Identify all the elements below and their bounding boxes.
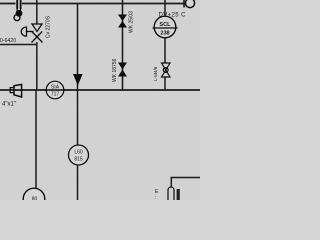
svg-text:WK 18756: WK 18756 (112, 58, 118, 82)
wire: top horizontal rail (0, 3, 184, 5)
diode V2 (double filled triangles) (118, 15, 127, 28)
node dot below C1 (16, 10, 23, 17)
tube 80 (bottom, clipped) (23, 188, 45, 210)
svg-text:L60: L60 (74, 150, 83, 156)
svg-text:80: 80 (32, 197, 38, 201)
terminal at top right (183, 0, 185, 8)
svg-text:SCL: SCL (159, 22, 171, 28)
wire: vertical line x=122.5 from top edge to bus (122, 0, 124, 90)
arrow (signal direction) on x=77 line (73, 74, 83, 86)
wire: branch to left edge at y=44.5 (0, 44, 37, 46)
svg-text:238: 238 (160, 31, 169, 37)
tube L60 815 (circle on x=77 line) (69, 145, 89, 165)
crystal symbol on x=165 line (162, 63, 171, 77)
svg-text:40-6420: 40-6420 (0, 38, 16, 44)
open circle terminal below C1 (14, 15, 20, 21)
wire: vertical line through V1 (x=37) (36, 0, 38, 24)
svg-text:WK 25/03: WK 25/03 (129, 11, 135, 33)
wire: vertical line x=165 from top edge to bus (164, 0, 166, 90)
svg-text:L-M4/8: L-M4/8 (153, 66, 158, 81)
background paper (0, 0, 200, 200)
wire: horizontal bus y=90 (0, 89, 200, 91)
wire: vertical x=36 below bus to bottom tube (35, 90, 37, 188)
svg-text:DV+25 C: DV+25 C (159, 13, 187, 19)
svg-text:717: 717 (51, 92, 60, 98)
wire: vertical line x=77 from top rail to bottom edge (77, 4, 79, 201)
bubble SIA 717 on bus (46, 81, 64, 99)
diode V3 (double filled triangles) (118, 63, 127, 77)
lamp SCL 238 (circle with chord) (154, 16, 176, 38)
svg-text:SIA: SIA (51, 84, 60, 90)
svg-text:4"x1": 4"x1" (2, 102, 16, 108)
transistor V1 (triangle + crossing lines) (32, 24, 43, 43)
svg-text::: : (155, 195, 156, 200)
small component bottom right (168, 187, 174, 200)
wire: bottom right corner (171, 178, 200, 187)
connector X1 on bus (10, 84, 21, 97)
svg-text:Cv 2270S: Cv 2270S (46, 15, 52, 38)
svg-text:815: 815 (74, 156, 83, 162)
earphone symbol left of V1 (21, 27, 33, 37)
capacitor C1 (in top rail) (17, 0, 20, 11)
